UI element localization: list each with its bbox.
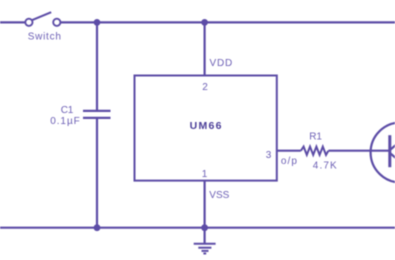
wire VDD vertical — [204, 22, 206, 75]
node junction bottom-mid — [201, 224, 208, 231]
wire left vertical upper — [96, 22, 98, 111]
node junction top-left — [94, 19, 101, 26]
wire pin3 lead — [277, 150, 301, 152]
node junction bottom-left — [94, 224, 101, 231]
svg-text:3: 3 — [266, 150, 272, 161]
svg-text:2: 2 — [202, 82, 208, 93]
wire VSS vertical — [204, 181, 206, 228]
svg-text:VSS: VSS — [209, 190, 229, 201]
resistor R1 — [301, 147, 329, 155]
transistor Q1 — [371, 123, 395, 183]
svg-text:R1: R1 — [309, 132, 322, 143]
wire top rail right segment — [60, 21, 395, 23]
svg-text:4.7K: 4.7K — [313, 161, 338, 172]
svg-text:o/p: o/p — [281, 156, 298, 167]
svg-text:UM66: UM66 — [190, 120, 223, 132]
switch S1 — [25, 12, 60, 26]
wire resistor to transistor — [328, 150, 388, 152]
svg-text:C1: C1 — [61, 105, 74, 116]
wire left vertical lower — [96, 118, 98, 228]
wire bottom rail — [0, 227, 395, 229]
svg-text:Switch: Switch — [28, 32, 62, 43]
capacitor C1 — [83, 111, 111, 118]
wire top rail left segment — [0, 21, 25, 23]
node junction top-mid — [201, 19, 208, 26]
IC U1 UM66 body — [135, 76, 277, 181]
svg-text:1: 1 — [202, 169, 208, 180]
svg-text:0.1µF: 0.1µF — [50, 116, 81, 127]
ground — [194, 228, 216, 254]
svg-text:VDD: VDD — [210, 58, 234, 69]
